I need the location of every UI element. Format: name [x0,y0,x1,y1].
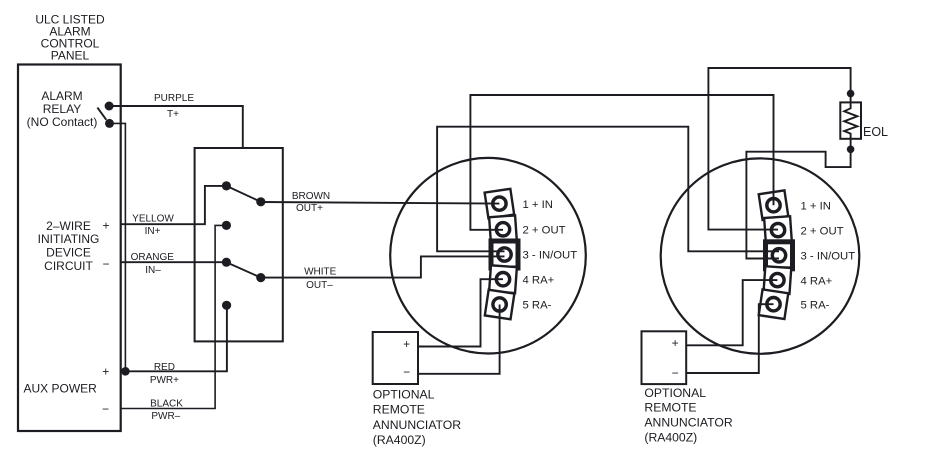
wire WHITE OUT- from contact5 to detector1 terminal 3 [261,256,505,277]
svg-text:1 + IN: 1 + IN [801,200,831,212]
svg-text:AUX POWER: AUX POWER [24,381,98,395]
wire PURPLE T+ from relay node A to module top [109,106,243,148]
svg-text:IN+: IN+ [145,226,161,237]
wire BLACK PWR- from panel to module contact 2 [121,225,227,408]
wire detector2 terminal4 RA+ to annunciator2 plus [686,280,777,345]
svg-text:ANNUNCIATOR: ANNUNCIATOR [373,418,461,432]
EOL top node dot [847,90,855,98]
annunciator 1 label [373,388,461,448]
svg-text:PWR–: PWR– [151,411,180,422]
module contact 4 (IN-) [222,258,231,267]
svg-text:BROWN: BROWN [292,191,330,202]
svg-text:RED: RED [154,362,175,373]
svg-text:(NO Contact): (NO Contact) [27,115,98,129]
relay contact node A (top) [105,102,114,111]
detector 2 terminal block squares [759,190,793,319]
svg-text:DEVICE: DEVICE [46,246,91,260]
module contact 5 (OUT-) [256,273,265,282]
svg-text:+: + [403,337,410,351]
svg-text:2 + OUT: 2 + OUT [801,225,844,237]
detector 1 terminal block squares [485,189,518,319]
panel title label "ULC LISTED ALARM CONTROL PANEL" [35,12,105,62]
svg-text:WHITE: WHITE [304,267,337,278]
relay switch blade (NO contact) [97,108,106,120]
svg-text:REMOTE: REMOTE [373,402,425,416]
wire RED PWR+ from panel to module contact 6 [121,305,227,371]
svg-text:5 RA-: 5 RA- [801,299,830,311]
resistor EOL [840,90,888,153]
relay contact node B (bottom) [105,119,114,128]
annunciator 2 box [642,331,687,384]
wire detector1 terminal5 RA- to annunciator1 minus [418,305,500,374]
svg-text:3 - IN/OUT: 3 - IN/OUT [523,250,578,262]
svg-text:+: + [672,336,679,350]
alarm control panel box [18,65,121,432]
svg-text:2 + OUT: 2 + OUT [523,225,566,237]
module contact 3 (OUT+) [256,197,265,206]
svg-text:+: + [102,364,109,378]
svg-text:ALARM: ALARM [41,89,82,103]
svg-text:(RA400Z): (RA400Z) [644,431,697,445]
svg-text:EOL: EOL [863,125,888,139]
wire detector1 terminal2 +OUT to detector2 terminal1 +IN [470,95,773,230]
detector 2 terminal labels [801,200,856,311]
svg-text:OPTIONAL: OPTIONAL [644,386,706,400]
wire detector1 terminal3 IN/OUT to detector2 terminal3 IN/OUT [437,127,779,252]
junction dot on RED PWR+ wire [121,367,130,376]
svg-text:(RA400Z): (RA400Z) [373,433,426,447]
module contact 2 (PWR-) [222,221,231,230]
svg-text:+: + [102,219,109,233]
wire ORANGE IN- from panel to module contact 3 [121,261,227,263]
detector 1 terminal labels [523,199,578,312]
wire BROWN OUT+ from contact3 to detector1 terminal 1 [261,202,500,204]
svg-text:T+: T+ [167,109,179,120]
svg-text:YELLOW: YELLOW [132,213,174,224]
svg-text:4 RA+: 4 RA+ [523,274,555,286]
svg-text:PWR+: PWR+ [150,375,179,386]
wire YELLOW IN+ from panel to module contact 1 [121,186,227,224]
svg-text:PURPLE: PURPLE [154,93,194,104]
svg-text:RELAY: RELAY [43,102,81,116]
svg-text:ORANGE: ORANGE [131,252,175,263]
wire from relay node B down to PWR+ junction [110,123,126,371]
annunciator 1 box [373,332,418,384]
svg-text:−: − [102,402,109,416]
svg-text:PANEL: PANEL [51,48,90,62]
svg-text:OUT+: OUT+ [296,203,323,214]
svg-text:REMOTE: REMOTE [644,401,696,415]
svg-text:2–WIRE: 2–WIRE [46,219,91,233]
detector 1 terminal rings [493,197,512,311]
detector 2 circle [661,158,860,353]
svg-text:CIRCUIT: CIRCUIT [44,259,93,273]
svg-text:1 + IN: 1 + IN [523,199,553,211]
svg-text:ANNUNCIATOR: ANNUNCIATOR [644,416,732,430]
detector relay module box [195,148,283,341]
switch blade contact1 to contact3 [226,186,260,202]
detector 1 circle [390,158,586,354]
svg-text:−: − [403,365,410,379]
svg-text:−: − [672,366,679,380]
svg-text:BLACK: BLACK [150,399,183,410]
alarm relay label "ALARM RELAY (NO Contact)" [27,89,98,129]
svg-text:IN–: IN– [145,265,161,276]
EOL bottom node dot [847,146,855,154]
svg-text:5 RA-: 5 RA- [523,300,552,312]
label 2-WIRE INITIATING DEVICE CIRCUIT [38,219,100,273]
module contact 1 (IN+) [222,181,231,190]
wire detector1 terminal4 RA+ to annunciator1 plus [418,279,503,346]
svg-text:4 RA+: 4 RA+ [801,275,833,287]
switch blade contact4 to contact5 [226,262,260,277]
wire EOL resistor bottom to detector2 terminal3 IN/OUT [746,139,850,259]
svg-text:3 - IN/OUT: 3 - IN/OUT [801,251,856,263]
svg-text:OUT–: OUT– [306,280,333,291]
svg-text:INITIATING: INITIATING [38,232,100,246]
detector 2 terminal rings [767,199,786,311]
wire detector2 terminal2 +OUT to EOL resistor top [708,68,850,230]
svg-text:OPTIONAL: OPTIONAL [373,388,435,402]
annunciator 2 label [644,386,732,445]
svg-text:−: − [102,257,109,271]
wire detector2 terminal5 RA- to annunciator2 minus [686,304,773,373]
module contact 6 (PWR+) [222,301,231,310]
